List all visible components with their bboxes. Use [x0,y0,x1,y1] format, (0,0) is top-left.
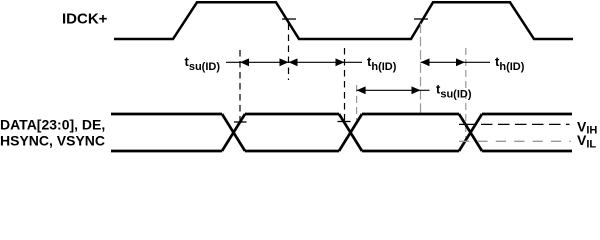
dashed vertical at data crossover 2 hold ref (black) [344,48,346,121]
arrowhead right at x=420.5 row2 [412,86,421,94]
row2 dimension line [357,89,430,91]
bus rails segment 2 [245,113,339,116]
arrowhead left at x=240 row1 [240,58,249,66]
arrowhead right at x=344.5 row1 [336,58,345,66]
bus waveform rails segment 1 [111,113,222,116]
dashed vertical at clock rising edge (gray) [420,24,422,114]
arrowhead right at x=465 row1 [456,58,465,66]
arrowhead left at x=356.6 row2 [357,86,366,94]
VIL threshold dashed line (gray) [459,140,571,142]
dashed vertical at data crossover 2 setup ref (gray) [356,85,358,120]
VIH threshold dashed line (black) [481,123,570,125]
dashed vertical at data crossover 1 (black) [239,50,241,122]
dashed vertical at data crossover 3 (gray) [465,48,467,141]
arrowhead left at x=420.5 row1 [421,58,430,66]
crossover 2 cross tick [338,121,351,123]
svg-text:DATA[23:0], DE,: DATA[23:0], DE, [0,117,105,133]
bus rails segment 4 [482,113,572,116]
bus crossover X3 [459,114,482,151]
clock falling-edge cross tick [282,18,296,20]
dashed vertical at clock falling edge (black) [288,24,290,81]
crossover 3 cross tick [459,123,477,125]
svg-text:HSYNC, VSYNC: HSYNC, VSYNC [0,133,105,149]
IDCK+ clock waveform [114,2,573,39]
bus rails segment 3 [362,113,459,116]
bus crossover X2 [339,114,362,151]
row1 dimension line A [226,61,362,63]
clock rising-edge cross tick [414,18,428,20]
svg-text:IDCK+: IDCK+ [62,10,108,27]
arrowhead left at x=288.5 row1 [289,58,298,66]
row1 dimension line B [421,61,491,63]
arrowhead right at x=288.5 row1 [280,58,289,66]
bus crossover X1 [222,114,245,151]
crossover 1 cross tick [234,121,247,123]
